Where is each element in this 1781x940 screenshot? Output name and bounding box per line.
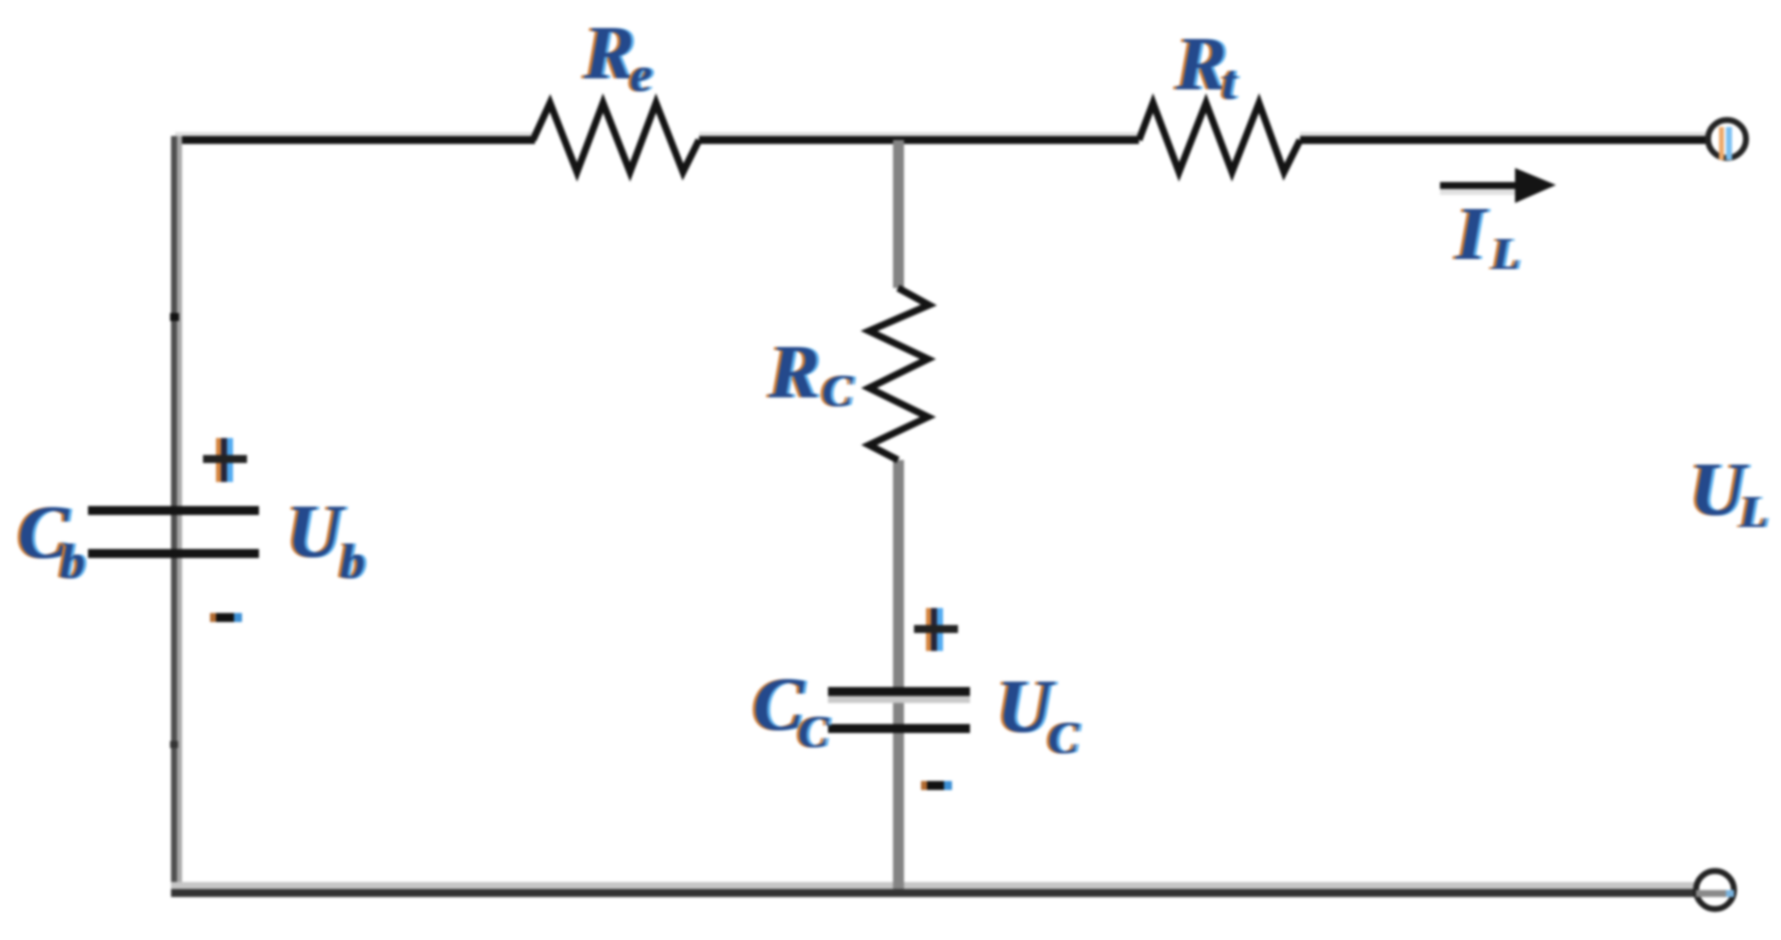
label UC — [994, 665, 1083, 763]
junction tick on left wire (upper) — [170, 313, 179, 321]
terminal top-right (+) — [1708, 120, 1746, 160]
capacitor CC top plate — [828, 687, 970, 703]
label CC — [750, 663, 833, 757]
svg-text:e: e — [630, 46, 652, 102]
svg-text:L: L — [1739, 486, 1768, 537]
junction tick on left wire (lower) — [170, 741, 178, 748]
label RC — [765, 330, 857, 416]
capacitor Cb top plate — [88, 506, 259, 515]
svg-text:b: b — [60, 533, 85, 589]
wire bottom — [171, 882, 1697, 897]
label IL — [1452, 192, 1523, 279]
svg-text:C: C — [822, 365, 854, 416]
current arrow IL — [1440, 168, 1556, 203]
terminal bottom-right — [1696, 871, 1734, 909]
svg-text:C: C — [798, 706, 830, 757]
svg-text:C: C — [1048, 712, 1080, 763]
wire top (left segment, node A to Re) — [171, 132, 535, 144]
wire middle vertical (node A down) — [893, 140, 904, 288]
wire top (Re to Rt) — [699, 132, 1139, 144]
minus sign of Cb — [210, 613, 242, 622]
wire middle vertical (RC to CC and to bottom wire) — [893, 460, 904, 889]
resistor Re — [533, 103, 699, 172]
minus sign of CC — [921, 781, 952, 790]
label Re — [580, 11, 655, 102]
label Ub — [284, 490, 368, 589]
label UL — [1687, 448, 1771, 537]
svg-text:R: R — [768, 330, 820, 414]
resistor Rt — [1139, 103, 1300, 172]
plus sign of CC — [914, 608, 958, 651]
svg-text:t: t — [1222, 54, 1238, 110]
capacitor Cb bottom plate — [88, 549, 259, 558]
label Rt — [1172, 22, 1241, 110]
capacitor CC bottom plate — [828, 724, 970, 733]
svg-text:L: L — [1491, 228, 1520, 279]
plus sign of Cb — [203, 438, 247, 482]
wire top (Rt to + terminal) — [1300, 132, 1706, 144]
label Cb — [15, 491, 88, 589]
wire left vertical — [171, 136, 182, 896]
svg-text:b: b — [340, 533, 365, 589]
resistor RC (vertical) — [869, 288, 929, 460]
svg-text:I: I — [1455, 192, 1488, 276]
